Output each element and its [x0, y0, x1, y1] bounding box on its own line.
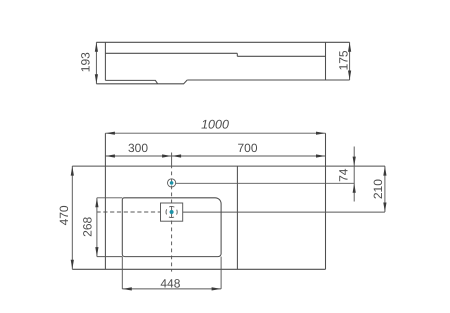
74 extension line faucet center: [176, 182, 354, 184]
svg-text:700: 700: [237, 141, 257, 155]
dimension 448 arrow right: [212, 287, 222, 290]
dimension 175 arrow up: [348, 42, 351, 52]
dimension 74 line: [353, 147, 355, 202]
drain square: [161, 203, 183, 221]
svg-text:268: 268: [81, 216, 95, 236]
dimension 268 arrow up: [95, 198, 98, 208]
dimension 470 arrow down: [71, 260, 74, 270]
side view inner line left: [105, 52, 237, 54]
dimension 175 arrow down: [348, 71, 351, 81]
side view right edge: [325, 42, 327, 80]
side view main bottom: [187, 79, 349, 81]
svg-text:470: 470: [57, 205, 71, 225]
vertical dashed centerline: [171, 166, 173, 272]
dimension 193 arrow down: [95, 74, 98, 84]
dimension 300 arrow right: [162, 154, 172, 157]
faucet hole teal dot: [170, 181, 174, 185]
dimension 175 line: [349, 42, 351, 80]
plan view right edge / 1000 extension: [325, 133, 327, 269]
faucet hole circle: [168, 179, 176, 187]
side view bowl bottom: [96, 80, 187, 84]
dimension 470 arrow up: [71, 166, 74, 176]
dimension 268 arrow down: [95, 247, 98, 257]
drain teal dot: [170, 210, 174, 214]
plan view top edge: [72, 165, 385, 167]
dimension 193 line: [95, 42, 97, 84]
svg-text:175: 175: [337, 50, 351, 70]
svg-text:1000: 1000: [201, 118, 229, 132]
centerline solid extension above top edge: [171, 153, 173, 167]
dimension 1000 arrow left: [105, 132, 115, 135]
dimension 268 line: [96, 198, 98, 257]
svg-text:210: 210: [371, 179, 385, 199]
svg-text:300: 300: [128, 141, 148, 155]
horizontal dashed centerline: [97, 211, 161, 213]
svg-text:74: 74: [337, 168, 351, 182]
210 extension line: [183, 211, 385, 213]
dimension 1000 line: [105, 132, 325, 134]
plan view bottom edge: [72, 268, 325, 270]
dimension 700 line: [172, 155, 326, 157]
dimension 210 arrow up: [383, 166, 386, 176]
dimension 300 line: [105, 155, 171, 157]
dimension 700 arrow right: [316, 154, 326, 157]
dimension 300 arrow left: [105, 154, 115, 157]
dimension 210 line: [384, 166, 386, 212]
dimension 210 arrow down: [383, 203, 386, 213]
dimension 700 arrow left: [172, 154, 182, 157]
268 bottom extension / basin bottom extended: [97, 256, 122, 258]
dimension 74 arrow down (above top edge): [353, 157, 356, 167]
side view left edge: [104, 42, 106, 80]
dimension 448 arrow left: [122, 287, 132, 290]
dimension 448 line: [122, 288, 221, 290]
dimension 470 line: [71, 166, 73, 269]
448 left extension: [121, 257, 123, 289]
side view top edge: [96, 41, 349, 43]
side view inner bottom line: [105, 80, 157, 83]
plan view interior vertical: [236, 166, 238, 269]
268 top extension: [97, 197, 122, 199]
dimension 74 arrow up (below faucet line): [353, 183, 356, 193]
448 right extension: [220, 257, 222, 289]
side view inner line step: [236, 53, 238, 56]
svg-text:448: 448: [160, 276, 180, 290]
plan view left interior vertical / 1000 extension: [104, 133, 106, 269]
svg-text:193: 193: [78, 52, 92, 72]
basin rounded rectangle: [122, 198, 221, 257]
drain dashed circle: [166, 206, 177, 217]
dimension 1000 arrow right: [316, 132, 326, 135]
side view inner line right: [237, 55, 325, 57]
dimension 193 arrow up: [95, 42, 98, 52]
